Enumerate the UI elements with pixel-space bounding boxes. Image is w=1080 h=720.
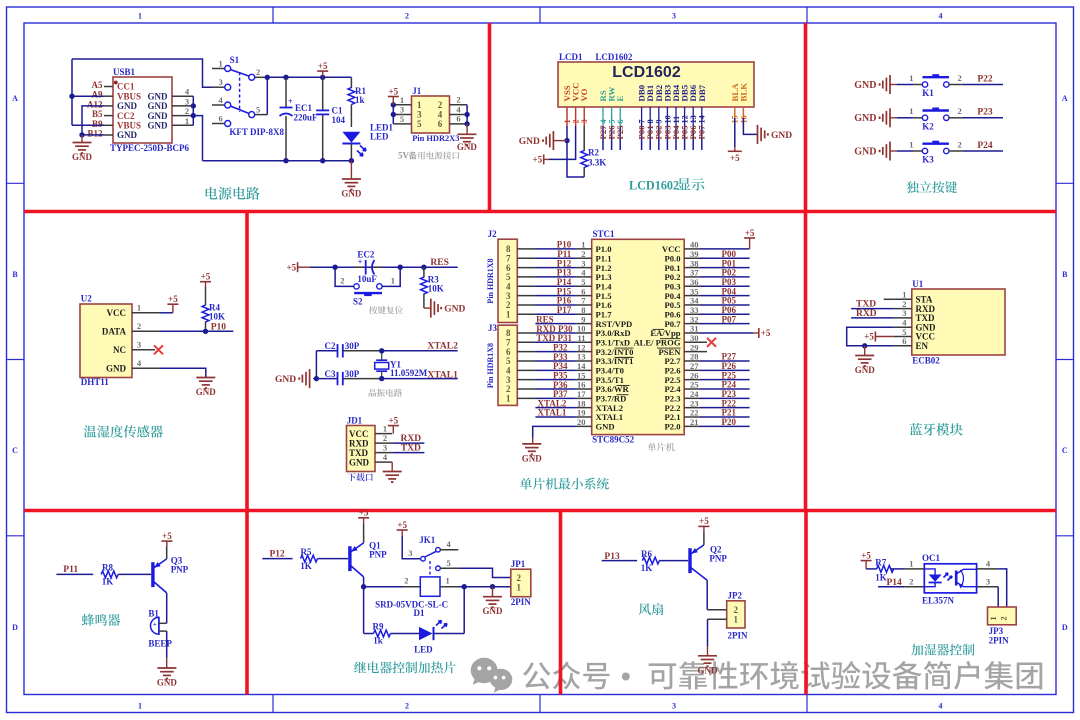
svg-text:SRD-05VDC-SL-C: SRD-05VDC-SL-C bbox=[375, 600, 448, 610]
svg-text:J2: J2 bbox=[488, 229, 498, 239]
svg-text:3: 3 bbox=[672, 702, 676, 711]
svg-text:JP3: JP3 bbox=[989, 626, 1004, 636]
svg-text:4: 4 bbox=[939, 702, 943, 711]
svg-text:GND: GND bbox=[148, 91, 169, 101]
connector J3 Pin HDR1X8 bbox=[486, 323, 535, 405]
svg-text:Pin HDR1X8: Pin HDR1X8 bbox=[486, 343, 495, 388]
svg-text:3: 3 bbox=[672, 12, 676, 21]
svg-text:R5: R5 bbox=[301, 547, 312, 557]
svg-text:GND: GND bbox=[106, 364, 127, 374]
svg-text:P11: P11 bbox=[63, 565, 78, 575]
svg-text:6: 6 bbox=[902, 336, 906, 346]
label mcu part bbox=[648, 443, 675, 452]
net P14 wire bbox=[878, 578, 904, 588]
wire lcd vcc +5 bbox=[533, 107, 576, 165]
svg-text:NC: NC bbox=[113, 345, 126, 355]
buzzer B1 BEEP bbox=[148, 609, 172, 649]
wire oc1 pin3 to jp3 bbox=[997, 587, 999, 607]
svg-text:LCD1: LCD1 bbox=[559, 52, 583, 62]
svg-text:GND: GND bbox=[196, 387, 217, 397]
power +5 humidifier bbox=[861, 550, 877, 569]
svg-text:U2: U2 bbox=[81, 294, 92, 304]
wire jk1-5 to jp1 pin2 bbox=[459, 568, 511, 577]
wire dht vcc +5 bbox=[132, 294, 178, 313]
wire jd1 txd bbox=[375, 444, 424, 454]
transistor Q2 PNP bbox=[690, 544, 727, 580]
wire r7 to oc1 bbox=[891, 568, 905, 570]
svg-text:B5: B5 bbox=[92, 109, 103, 119]
note 5V backup port bbox=[398, 151, 459, 161]
svg-text:2: 2 bbox=[256, 67, 260, 77]
svg-text:GND: GND bbox=[148, 101, 169, 111]
svg-text:1K: 1K bbox=[300, 561, 312, 571]
svg-text:EC1: EC1 bbox=[295, 103, 313, 113]
resistor R6 1K bbox=[641, 549, 660, 573]
ground mcu pin20 bbox=[522, 426, 576, 463]
svg-text:STC89C52: STC89C52 bbox=[592, 435, 635, 445]
svg-text:P25: P25 bbox=[615, 125, 625, 140]
svg-text:DHT11: DHT11 bbox=[81, 377, 110, 387]
lcd data wires bbox=[598, 125, 707, 150]
wire r8 to q3 bbox=[118, 573, 151, 575]
capacitor EC1 220uF bbox=[280, 77, 319, 160]
svg-text:+5: +5 bbox=[162, 531, 172, 541]
wires J2 to mcu P10-P17 bbox=[535, 240, 576, 315]
svg-text:+5: +5 bbox=[864, 332, 874, 342]
svg-text:3: 3 bbox=[137, 339, 141, 349]
svg-text:GND: GND bbox=[117, 130, 138, 140]
svg-text:+5: +5 bbox=[397, 520, 407, 530]
power +5 EA pin31 bbox=[700, 328, 771, 338]
resistor R8 1K bbox=[101, 563, 118, 587]
svg-text:J3: J3 bbox=[488, 323, 498, 333]
svg-text:2: 2 bbox=[958, 106, 962, 116]
connector J1 Pin HDR2X3 bbox=[393, 86, 467, 143]
svg-text:RXD: RXD bbox=[856, 309, 877, 319]
svg-text:KFT DIP-8X8: KFT DIP-8X8 bbox=[229, 127, 284, 137]
wire usb right gnd tie bbox=[191, 96, 203, 161]
svg-text:1: 1 bbox=[446, 576, 450, 586]
resistor R3 10K bbox=[421, 267, 444, 308]
resistor R1 1k bbox=[323, 77, 367, 127]
svg-text:K2: K2 bbox=[922, 121, 934, 131]
svg-text:+5: +5 bbox=[359, 508, 369, 518]
svg-text:VBUS: VBUS bbox=[117, 91, 141, 101]
svg-text:K1: K1 bbox=[922, 88, 934, 98]
svg-text:EN: EN bbox=[916, 341, 929, 351]
power +5 relay q1 bbox=[358, 508, 369, 543]
svg-text:DB7: DB7 bbox=[697, 84, 707, 101]
wire dht data P10 bbox=[132, 322, 233, 334]
svg-text:GND: GND bbox=[148, 121, 169, 131]
capacitor EC2 10uF bbox=[354, 250, 382, 285]
svg-text:U1: U1 bbox=[912, 279, 923, 289]
watermark text bbox=[523, 662, 610, 690]
svg-text:RXD: RXD bbox=[349, 438, 369, 448]
svg-text:2: 2 bbox=[517, 573, 522, 583]
svg-text:K3: K3 bbox=[922, 155, 934, 165]
svg-text:1k: 1k bbox=[373, 636, 383, 646]
svg-text:+5: +5 bbox=[318, 61, 328, 71]
svg-text:+5: +5 bbox=[388, 415, 398, 425]
svg-text:J1: J1 bbox=[412, 86, 422, 96]
svg-text:P07: P07 bbox=[697, 125, 707, 140]
svg-text:GND: GND bbox=[855, 365, 876, 375]
svg-text:1K: 1K bbox=[102, 577, 114, 587]
wire jd1 rxd bbox=[375, 434, 424, 444]
svg-text:+5: +5 bbox=[286, 262, 296, 272]
ground relay bbox=[483, 587, 504, 617]
svg-text:DATA: DATA bbox=[102, 327, 127, 337]
led LED1 bbox=[342, 123, 393, 161]
svg-text:1: 1 bbox=[137, 302, 141, 312]
svg-text:A: A bbox=[12, 94, 18, 103]
wire q1 collector down bbox=[361, 577, 374, 634]
title dht section bbox=[84, 425, 163, 438]
svg-text:GND: GND bbox=[148, 111, 169, 121]
svg-text:PNP: PNP bbox=[709, 553, 727, 563]
svg-text:P23: P23 bbox=[977, 108, 993, 118]
lcd display LCD1 bbox=[558, 52, 754, 107]
svg-text:2: 2 bbox=[340, 276, 344, 286]
svg-text:D1: D1 bbox=[414, 608, 425, 618]
wire jd1 vcc +5 bbox=[375, 415, 399, 433]
svg-text:P07: P07 bbox=[722, 314, 737, 324]
svg-text:OC1: OC1 bbox=[922, 553, 941, 563]
svg-text:P22: P22 bbox=[977, 74, 993, 84]
svg-text:2: 2 bbox=[438, 100, 443, 110]
svg-text:E: E bbox=[615, 96, 625, 102]
svg-text:JK1: JK1 bbox=[419, 535, 436, 545]
svg-text:1: 1 bbox=[391, 276, 395, 286]
svg-text:R2: R2 bbox=[588, 148, 599, 158]
svg-text:20: 20 bbox=[577, 417, 586, 427]
svg-text:1: 1 bbox=[909, 73, 913, 83]
svg-text:LCD1602: LCD1602 bbox=[612, 64, 681, 81]
svg-text:LED: LED bbox=[370, 132, 389, 142]
svg-text:A: A bbox=[1062, 94, 1068, 103]
svg-text:CC2: CC2 bbox=[117, 111, 135, 121]
ground buzzer bbox=[157, 631, 178, 687]
ground jd1 bbox=[375, 462, 402, 482]
title fan bbox=[639, 603, 664, 615]
svg-text:D: D bbox=[12, 623, 18, 632]
svg-text:C1: C1 bbox=[332, 106, 343, 116]
led relay indicator bbox=[391, 587, 465, 655]
wire bt txd RXD net bbox=[851, 309, 894, 319]
ground fan bbox=[698, 619, 727, 675]
svg-text:104: 104 bbox=[332, 115, 346, 125]
power +5 mcu vcc bbox=[700, 228, 755, 249]
svg-text:30P: 30P bbox=[345, 341, 360, 351]
wire coil right rail bbox=[458, 584, 511, 589]
svg-text:1: 1 bbox=[400, 95, 404, 105]
wire reset rail RES bbox=[310, 258, 458, 270]
resistor R7 1K bbox=[875, 557, 893, 582]
svg-text:B: B bbox=[12, 270, 18, 279]
wire oc1 pin4 to jp3 bbox=[998, 569, 1007, 607]
transistor Q1 PNP bbox=[350, 541, 387, 577]
svg-text:C2: C2 bbox=[325, 341, 336, 351]
svg-text:EL357N: EL357N bbox=[922, 596, 955, 606]
svg-text:2: 2 bbox=[404, 576, 408, 586]
button K1 bbox=[854, 73, 1003, 98]
svg-text:GND: GND bbox=[157, 678, 178, 688]
svg-text:3: 3 bbox=[408, 548, 412, 558]
svg-text:B: B bbox=[1062, 270, 1068, 279]
svg-text:P12: P12 bbox=[270, 549, 286, 559]
svg-text:R8: R8 bbox=[102, 563, 113, 573]
svg-text:1: 1 bbox=[734, 615, 739, 625]
svg-text:GND: GND bbox=[522, 453, 543, 463]
wires mcu P0 port bbox=[700, 249, 750, 324]
power +5 bt vcc bbox=[864, 332, 893, 342]
wire xtal1 net bbox=[382, 371, 458, 381]
svg-text:2: 2 bbox=[405, 12, 409, 21]
svg-text:TXD: TXD bbox=[349, 448, 369, 458]
svg-text:RES: RES bbox=[430, 258, 448, 268]
svg-text:GND: GND bbox=[349, 457, 370, 467]
wire lcd blk ground bbox=[743, 107, 792, 144]
svg-text:1: 1 bbox=[417, 100, 422, 110]
svg-text:USB1: USB1 bbox=[113, 67, 136, 77]
svg-text:R6: R6 bbox=[641, 549, 652, 559]
svg-text:C: C bbox=[12, 446, 18, 455]
svg-text:A5: A5 bbox=[92, 80, 103, 90]
svg-text:+5: +5 bbox=[699, 516, 709, 526]
wire xtal2 net bbox=[382, 342, 458, 352]
svg-text:1: 1 bbox=[909, 139, 913, 149]
svg-text:B12: B12 bbox=[87, 129, 103, 139]
svg-text:+5: +5 bbox=[201, 272, 211, 282]
svg-text:3: 3 bbox=[185, 96, 189, 106]
svg-text:1: 1 bbox=[383, 423, 387, 433]
svg-text:+5: +5 bbox=[168, 294, 178, 304]
svg-text:6: 6 bbox=[438, 119, 443, 129]
button K2 bbox=[854, 106, 1003, 131]
ground j1 right bbox=[457, 105, 478, 152]
svg-text:5V: 5V bbox=[398, 151, 410, 161]
wire RES to mcu pin9 bbox=[535, 314, 575, 324]
svg-text:GND: GND bbox=[771, 131, 792, 141]
svg-text:TXD: TXD bbox=[856, 300, 876, 310]
svg-text:1: 1 bbox=[506, 394, 511, 404]
connector JP1 2PIN bbox=[511, 559, 532, 607]
switch S1 KFT DIP-8X8 bbox=[212, 55, 284, 137]
wire r5 to q1 bbox=[318, 558, 349, 560]
svg-text:5: 5 bbox=[417, 119, 422, 129]
svg-text:P13: P13 bbox=[604, 552, 620, 562]
svg-text:STC1: STC1 bbox=[593, 229, 616, 239]
ground usb left bbox=[72, 106, 104, 162]
svg-text:GND: GND bbox=[341, 189, 362, 199]
svg-text:GND: GND bbox=[444, 305, 465, 315]
svg-text:VCC: VCC bbox=[349, 429, 369, 439]
svg-text:1: 1 bbox=[909, 106, 913, 116]
svg-text:JD1: JD1 bbox=[347, 416, 363, 426]
no-connect X ALE pin30 bbox=[707, 338, 716, 347]
svg-text:2PIN: 2PIN bbox=[728, 631, 749, 641]
svg-text:PNP: PNP bbox=[369, 550, 387, 560]
svg-text:S2: S2 bbox=[353, 297, 363, 307]
title mcu section bbox=[520, 478, 609, 490]
svg-text:1K: 1K bbox=[641, 563, 653, 573]
watermark wechat icon bbox=[471, 658, 513, 693]
wire r6 to q2 bbox=[659, 560, 688, 562]
wire usb vbus to switch bbox=[69, 59, 212, 125]
svg-text:B9: B9 bbox=[92, 119, 103, 129]
svg-text:1: 1 bbox=[218, 58, 222, 68]
crystal Y1 11.0592M bbox=[375, 348, 428, 381]
note crystal circuit bbox=[369, 389, 402, 397]
relay coil D1 SRD-05VDC-SL-C bbox=[375, 576, 458, 619]
title power section bbox=[206, 187, 260, 200]
svg-text:1: 1 bbox=[138, 12, 142, 21]
svg-text:4: 4 bbox=[939, 12, 943, 21]
svg-text:11.0592M: 11.0592M bbox=[390, 368, 428, 378]
wire lcd bla +5 bbox=[728, 107, 742, 163]
svg-text:B1: B1 bbox=[148, 609, 159, 619]
svg-text:P24: P24 bbox=[977, 141, 993, 151]
svg-text:GND: GND bbox=[275, 375, 296, 385]
net P12 wire bbox=[262, 549, 292, 559]
mcu STC1 STC89C52 bbox=[576, 229, 707, 445]
ground power rail bbox=[341, 161, 362, 199]
connector JP2 2PIN bbox=[727, 591, 748, 641]
svg-text:1: 1 bbox=[138, 702, 142, 711]
svg-text:PNP: PNP bbox=[171, 564, 189, 574]
title relay section bbox=[354, 661, 456, 673]
svg-text:GND: GND bbox=[854, 146, 876, 157]
title buttons bbox=[907, 181, 958, 193]
svg-text:Pin HDR1X8: Pin HDR1X8 bbox=[486, 258, 495, 303]
power +5 buzzer bbox=[161, 531, 172, 559]
svg-text:+: + bbox=[288, 97, 293, 106]
svg-text:1: 1 bbox=[909, 559, 913, 569]
wire XTAL2 to pin18 bbox=[535, 398, 575, 408]
svg-text:TYPEC-250D-BCP6: TYPEC-250D-BCP6 bbox=[110, 143, 189, 153]
svg-text:GND: GND bbox=[854, 113, 876, 124]
net P13 wire bbox=[602, 552, 637, 562]
wire j1 left +5 bbox=[388, 86, 399, 124]
svg-text:R7: R7 bbox=[875, 557, 886, 567]
svg-text:GND: GND bbox=[596, 422, 615, 432]
capacitor C2 30P bbox=[316, 341, 381, 358]
svg-text:XTAL1: XTAL1 bbox=[427, 371, 458, 381]
ground bt bbox=[855, 346, 876, 375]
sensor U2 DHT11 bbox=[80, 294, 142, 388]
svg-text:P10: P10 bbox=[211, 322, 227, 332]
title buzzer bbox=[82, 614, 120, 626]
svg-text:JP2: JP2 bbox=[728, 591, 743, 601]
optocoupler OC1 EL357N bbox=[904, 553, 998, 606]
svg-text:XTAL1: XTAL1 bbox=[538, 408, 567, 418]
connector JP3 2PIN bbox=[988, 607, 1017, 646]
svg-text:GND: GND bbox=[72, 152, 93, 162]
svg-text:P20: P20 bbox=[722, 417, 737, 427]
wire power bottom rail bbox=[203, 158, 355, 163]
resistor R5 1K bbox=[300, 547, 317, 571]
svg-text:2: 2 bbox=[405, 702, 409, 711]
svg-text:P17: P17 bbox=[557, 305, 572, 315]
svg-text:C: C bbox=[1062, 446, 1068, 455]
ground reset bbox=[424, 299, 466, 318]
svg-text:2: 2 bbox=[185, 106, 189, 116]
svg-text:GND: GND bbox=[457, 142, 478, 152]
svg-text:4: 4 bbox=[446, 539, 451, 549]
svg-text:2: 2 bbox=[456, 95, 460, 105]
button S2 reset bbox=[335, 267, 403, 314]
svg-text:EC2: EC2 bbox=[357, 250, 375, 260]
svg-text:Pin HDR2X3: Pin HDR2X3 bbox=[412, 134, 459, 143]
svg-text:2: 2 bbox=[734, 605, 739, 615]
wire main +5 rail bbox=[265, 75, 352, 115]
svg-text:+5: +5 bbox=[861, 550, 871, 560]
svg-text:1K: 1K bbox=[875, 572, 887, 582]
svg-text:+: + bbox=[153, 621, 157, 629]
power +5 reset bbox=[286, 262, 310, 272]
svg-text:VBUS: VBUS bbox=[117, 121, 141, 131]
transistor Q3 PNP bbox=[153, 556, 189, 593]
svg-text:GND: GND bbox=[483, 606, 504, 616]
svg-text:3: 3 bbox=[218, 77, 222, 87]
resistor R9 1k bbox=[373, 622, 391, 646]
svg-text:220uF: 220uF bbox=[294, 113, 319, 123]
bluetooth module U1 ECB02 bbox=[894, 279, 1005, 366]
svg-text:VCC: VCC bbox=[107, 308, 127, 318]
svg-text:TXD: TXD bbox=[401, 444, 421, 454]
svg-text:GND: GND bbox=[698, 665, 719, 675]
svg-text:GND: GND bbox=[519, 137, 540, 147]
svg-text:P14: P14 bbox=[887, 578, 903, 588]
svg-text:P2.0: P2.0 bbox=[665, 422, 681, 432]
svg-text:+5: +5 bbox=[745, 228, 755, 238]
svg-text:2PIN: 2PIN bbox=[989, 636, 1010, 646]
connector J2 Pin HDR1X8 bbox=[486, 229, 535, 323]
capacitor C1 104 bbox=[316, 77, 345, 160]
wire q3 collector bbox=[166, 593, 168, 623]
svg-text:JP1: JP1 bbox=[511, 559, 526, 569]
svg-text:1: 1 bbox=[506, 309, 511, 319]
svg-text:2: 2 bbox=[958, 73, 962, 83]
net P11 wire bbox=[56, 565, 93, 575]
wire bt sta open bbox=[884, 298, 894, 300]
title lcd section bbox=[629, 178, 704, 193]
power +5 fan bbox=[698, 516, 709, 545]
svg-text:GND: GND bbox=[854, 80, 876, 91]
svg-text:LCD1602: LCD1602 bbox=[595, 52, 633, 62]
relay JK1 switch bbox=[397, 520, 460, 576]
wire bt gnd-en loop bbox=[847, 327, 894, 348]
wires mcu P2 port bbox=[700, 352, 750, 427]
svg-text:4: 4 bbox=[218, 95, 223, 105]
svg-text:BLK: BLK bbox=[738, 83, 748, 102]
svg-text:XTAL2: XTAL2 bbox=[427, 342, 458, 352]
svg-text:2: 2 bbox=[137, 321, 141, 331]
svg-text:LED: LED bbox=[414, 644, 433, 654]
svg-text:10K: 10K bbox=[209, 312, 225, 322]
svg-text:6: 6 bbox=[218, 113, 222, 123]
svg-text:RES: RES bbox=[536, 314, 554, 324]
svg-text:1: 1 bbox=[517, 583, 522, 593]
svg-text:A12: A12 bbox=[87, 99, 103, 109]
svg-text:3: 3 bbox=[986, 576, 990, 586]
svg-text:+5: +5 bbox=[388, 86, 398, 96]
svg-text:+5: +5 bbox=[730, 153, 740, 163]
svg-text:10uF: 10uF bbox=[357, 274, 377, 284]
svg-text:10K: 10K bbox=[428, 284, 444, 294]
svg-text:GND: GND bbox=[117, 101, 138, 111]
